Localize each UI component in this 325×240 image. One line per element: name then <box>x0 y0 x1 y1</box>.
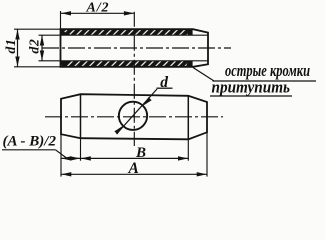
svg-text:притупить: притупить <box>212 78 291 97</box>
svg-text:A/2: A/2 <box>86 1 109 16</box>
svg-text:A: A <box>128 160 139 177</box>
svg-text:d2: d2 <box>28 39 43 54</box>
svg-text:B: B <box>135 145 146 161</box>
svg-text:d1: d1 <box>4 39 19 54</box>
svg-text:(A - B)/2: (A - B)/2 <box>3 134 57 150</box>
